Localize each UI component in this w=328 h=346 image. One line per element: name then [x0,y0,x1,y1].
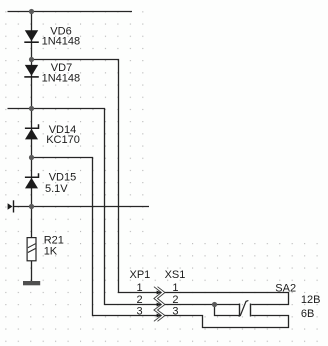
off-page arrow terminal on L5 [8,200,14,212]
diode VD6 [24,30,39,42]
connector pin arrowheads [157,291,162,318]
svg-text:KC170: KC170 [46,134,80,146]
svg-text:5.1V: 5.1V [45,183,68,195]
svg-text:VD15: VD15 [49,172,77,184]
svg-text:1: 1 [137,282,143,294]
svg-text:2: 2 [137,294,143,306]
svg-text:1: 1 [172,282,178,294]
resistor R21 [27,238,36,261]
svg-text:1N4148: 1N4148 [42,36,81,48]
wire XS1 pin 1 to 12V contact [165,293,289,305]
wire main vertical bus (lower, below R21) [31,261,33,282]
svg-text:3: 3 [172,305,178,317]
grid dots left region [0,4,149,346]
svg-text:1K: 1K [44,246,58,258]
zener diode VD14 [25,124,39,139]
wire XS1 pin 2 to switch common [165,304,239,306]
wire junction drop to switch lower left [215,305,240,316]
connector XP1/XS1 chevrons [154,287,165,322]
wire top rail L1 [8,11,133,13]
grid dots bottom-right region [149,238,328,346]
svg-text:2: 2 [172,294,178,306]
wire L2 to pin 1 of XP1 [32,60,158,293]
switch SA2 contact bars [240,304,251,317]
svg-text:SA2: SA2 [275,282,296,294]
zener diode VD15 [25,173,39,188]
svg-text:1N4148: 1N4148 [42,73,81,85]
wire main vertical bus (upper) [31,12,33,238]
node junction dots on bus [29,9,217,307]
svg-text:12В: 12В [301,294,321,306]
svg-text:R21: R21 [44,234,64,246]
wire XS1 pin 3 to 6V contact [165,316,289,328]
wire L5 stub [14,206,149,208]
svg-text:XP1: XP1 [130,269,151,281]
svg-text:3: 3 [137,305,143,317]
diode VD7 [24,65,39,77]
wire L3 to pin 2 of XP1 [8,109,158,305]
ground bar [23,281,40,285]
switch SA2 blade [239,301,249,317]
svg-text:XS1: XS1 [165,269,186,281]
svg-text:6В: 6В [301,308,314,320]
wire L4 to pin 3 of XP1 [32,158,158,316]
